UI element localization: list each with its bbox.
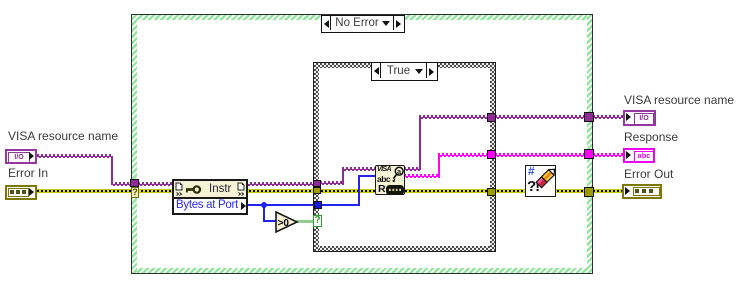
svg-text:a: a	[397, 169, 401, 176]
wire: blue inner tunnel seg	[320, 204, 360, 206]
indicator: VISA resource name (right)	[623, 110, 656, 126]
wire: VISA purple property node->inner tunnel	[246, 182, 314, 186]
structure: outer case structure "No Error" frame	[131, 14, 593, 274]
wire: VISA purple into VISA Read	[342, 167, 376, 171]
structure: inner case structure "True" frame	[313, 62, 496, 252]
tunnel: purple on inner right border	[487, 113, 496, 122]
label: Response	[624, 131, 678, 144]
wire: pink string to inner right tunnel	[438, 153, 488, 157]
wire: error cluster wire (Error In -> Error Out, straight)	[37, 189, 622, 193]
wire: green boolean comparator->inner selector	[296, 220, 314, 223]
indicator: Response	[623, 148, 655, 163]
selector label: True	[371, 62, 438, 81]
tunnel: blue on inner left border	[314, 201, 322, 209]
wire: pink string vertical x=439	[438, 156, 440, 176]
wire: pink string inner->outer tunnel	[495, 153, 585, 157]
tunnel: pink on outer right border	[584, 149, 594, 159]
svg-text:>0: >0	[278, 218, 290, 229]
property node U1: Instr / Bytes at Port	[172, 179, 248, 215]
label: Error In	[8, 167, 48, 180]
selector terminal ? on outer frame (error case)	[131, 187, 139, 198]
tunnel: purple on outer left border	[130, 179, 139, 187]
wire: VISA purple to inner right tunnel	[419, 115, 488, 119]
tunnel: purple on outer right border	[584, 112, 594, 122]
wire: blue vertical x=358	[358, 175, 360, 206]
Simple Error Handler U3	[525, 165, 556, 197]
wire: VISA purple into outer tunnel	[111, 182, 132, 186]
tunnel: olive on inner right border	[487, 188, 496, 196]
label: VISA resource name (left)	[8, 130, 118, 143]
wire: blue into VISA Read byte count	[358, 175, 376, 177]
label: Error Out	[624, 168, 673, 181]
wire: blue I32 property node->inner tunnel	[246, 204, 316, 206]
wire: VISA purple tunnel->property node	[138, 182, 173, 186]
wire: blue branch to comparator	[263, 220, 277, 222]
label: VISA resource name (right)	[624, 94, 734, 107]
wire: VISA purple inner tunnel seg	[320, 181, 344, 185]
control: VISA resource name (left)	[5, 149, 37, 164]
wire: VISA purple from control, horizontal seg	[37, 154, 113, 158]
tunnel: olive on outer right border	[584, 187, 594, 197]
indicator: Error Out	[622, 184, 662, 199]
tunnel: pink on inner right border	[487, 150, 496, 159]
wire: pink string outer tunnel->Response	[593, 153, 624, 157]
wire: VISA purple out of VISA Read	[404, 167, 421, 171]
wire: VISA purple vertical x=420	[419, 117, 421, 169]
selector terminal ? on inner frame (boolean)	[313, 215, 322, 227]
wire: pink string out of VISA Read	[404, 174, 440, 178]
VISA Read icon U2	[375, 165, 405, 195]
wire: VISA purple vertical x=111	[111, 156, 113, 184]
junction: blue wire dot	[261, 202, 267, 208]
selector label: No Error	[321, 15, 405, 33]
comparator: Greater Than 0?	[275, 211, 299, 234]
tunnel: olive error on inner left border	[313, 187, 321, 194]
control: Error In (left)	[5, 185, 37, 200]
wire: VISA purple inner->outer tunnel	[495, 115, 585, 119]
wire: blue branch vertical x=263	[263, 204, 265, 222]
wire: VISA purple outer tunnel->indicator	[593, 115, 624, 119]
tunnel: purple on inner left border	[313, 180, 321, 187]
wire: VISA purple vertical x=343	[342, 168, 344, 183]
